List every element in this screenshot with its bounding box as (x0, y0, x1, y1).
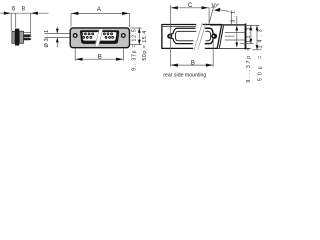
arrow B rear left (171, 64, 178, 67)
svg-text:C: C (188, 3, 193, 9)
dim B rear (171, 5, 214, 66)
hood slot outer contour right end (205, 28, 217, 43)
svg-text:A: A (97, 7, 101, 13)
rear rect 9...37p right edge inner line (219, 25, 223, 48)
arrow B right (116, 58, 123, 61)
break band front view (95, 29, 103, 46)
svg-text:50p = 15.4: 50p = 15.4 (142, 30, 148, 60)
svg-text:rear side mounting: rear side mounting (163, 73, 206, 79)
arrow left (outside) for dim 8 (31, 12, 38, 15)
arrow down at hole top (56, 29, 59, 34)
small dim 3.1 rear (231, 11, 236, 48)
angle arrow (214, 8, 220, 12)
arrow down slot top (235, 26, 238, 31)
svg-text:B: B (191, 60, 195, 66)
50p slot edge thin lines (225, 33, 245, 40)
upper solder pin (24, 35, 32, 37)
svg-text:50p = 14.3: 50p = 14.3 (258, 26, 264, 81)
right height dims extension lines (210, 25, 261, 49)
arrow C right (202, 6, 209, 9)
D-shell white interior (82, 32, 117, 41)
contact pins bottom row (82, 36, 114, 39)
arrow up flange top (138, 28, 141, 33)
arrow B rear right (206, 64, 213, 67)
svg-text:9...37p = 12.5: 9...37p = 12.5 (131, 28, 137, 70)
rear rect 50p extension edges (218, 24, 251, 50)
arrow right (outside) for dim 6 (4, 12, 11, 15)
side view black flange (15, 29, 19, 46)
hood slot inner contour left half (175, 31, 196, 41)
svg-text:10°: 10° (211, 3, 219, 9)
svg-text:9...37p = 11.3: 9...37p = 11.3 (246, 26, 252, 83)
pin centers white dots (81, 33, 113, 37)
svg-text:B: B (98, 54, 102, 60)
break edge lines (95, 29, 99, 46)
arrow up at hole bottom (56, 38, 59, 43)
50p slot top edge secondary line (163, 26, 196, 28)
screw hole right (122, 34, 126, 38)
10 deg vertical reference line (208, 7, 210, 24)
arrow down flange bottom (138, 40, 141, 45)
arrows dim 11.3 (250, 26, 253, 31)
screw hole left (73, 34, 77, 38)
arrows dim 14.3 (256, 26, 259, 31)
rear rect 9...37p outline (162, 25, 222, 49)
mounting hole right ear (212, 35, 215, 38)
hood slot inner contour right end (206, 31, 211, 41)
mounting hole left ear (168, 35, 171, 38)
10 deg slanted line (209, 5, 214, 23)
hood slot outer contour left half (168, 28, 196, 43)
break diagonal lines rear (194, 23, 202, 50)
flange plate (70, 28, 129, 48)
solder cup outline box (24, 33, 31, 35)
dim C line (171, 7, 209, 9)
dim B line front (75, 48, 123, 61)
arrow B left (75, 58, 82, 61)
arrow up slot bottom (235, 43, 238, 48)
arrow A left (71, 12, 78, 15)
angle arrow tail (220, 10, 230, 12)
dim line 6/8 horizontal (0, 13, 49, 33)
flange height dim (middle annotation) (130, 28, 141, 45)
svg-text:3.1: 3.1 (230, 9, 236, 23)
leader lines hole tangents (45, 27, 71, 48)
contact pins top row left (81, 33, 113, 36)
arrow A right (122, 12, 129, 15)
side view rear gray block (19, 31, 23, 43)
D-shell black outline (80, 30, 119, 44)
lower solder pin (24, 38, 32, 40)
side view front gray block (12, 31, 15, 43)
dim A line (71, 13, 129, 26)
arrow C left (171, 6, 178, 9)
